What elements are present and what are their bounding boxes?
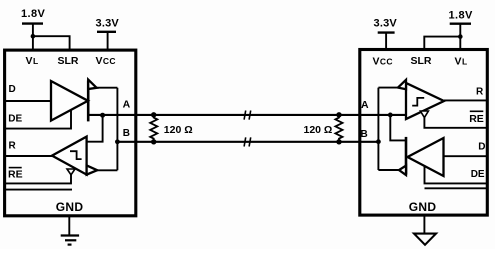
driver U2 output bar xyxy=(405,137,408,175)
wire break marks on line B xyxy=(244,137,251,146)
resistor RT1 120 ohm (left termination) xyxy=(150,112,157,144)
wire 1.8V to VL pin (U2) xyxy=(459,24,461,49)
svg-text:SLR: SLR xyxy=(58,55,79,67)
wire pin DE (U1) xyxy=(6,110,71,128)
wire 1.8V to SLR pin (U1) xyxy=(33,36,70,49)
svg-text:A: A xyxy=(361,99,369,111)
wire bus line A xyxy=(88,114,407,116)
wire 3.3V to VCC pin (U1) xyxy=(107,32,109,50)
wire break marks on line A xyxy=(244,111,251,120)
svg-text:1.8V: 1.8V xyxy=(21,8,45,20)
wire receiver U2 inverting input to node B xyxy=(378,87,398,89)
wire pin D (U2) xyxy=(444,155,488,157)
receiver U2 enable flag xyxy=(420,111,428,118)
wire 1.8V to VL pin (U1) xyxy=(32,24,34,50)
svg-text:120 Ω: 120 Ω xyxy=(164,124,193,136)
ground triangle symbol (U2) xyxy=(414,234,436,245)
transceiver U1 box xyxy=(5,50,136,216)
svg-text:GND: GND xyxy=(56,200,84,214)
supply rail bar 3.3V (right) xyxy=(378,31,395,33)
wire GND pin (U2) xyxy=(423,216,425,234)
junction 1.8V node (left) xyxy=(31,34,36,39)
wire node B vertical (U2) xyxy=(377,88,379,170)
driver U1 triangle xyxy=(51,81,88,121)
svg-text:3.3V: 3.3V xyxy=(374,18,398,30)
supply rail bar 3.3V (left) xyxy=(97,31,116,33)
driver U1 inverting output flag xyxy=(88,80,96,89)
svg-text:1.8V: 1.8V xyxy=(449,10,473,22)
svg-text:VCC: VCC xyxy=(96,55,116,67)
receiver U1 inverting input flag xyxy=(87,165,98,174)
svg-text:DE: DE xyxy=(8,114,22,125)
wire node A to driver output bar (U2) xyxy=(390,115,406,140)
junction node B (U2) xyxy=(376,139,381,144)
supply rail bar 1.8V (right) xyxy=(450,23,471,25)
svg-text:VL: VL xyxy=(26,55,39,67)
resistor RT2 120 ohm (right termination) xyxy=(335,112,342,144)
driver U2 triangle xyxy=(408,138,444,176)
receiver U1 hysteresis symbol xyxy=(70,151,82,159)
svg-text:VL: VL xyxy=(455,56,468,68)
svg-text:SLR: SLR xyxy=(411,55,432,67)
svg-text:B: B xyxy=(123,128,130,139)
receiver U2 triangle xyxy=(406,83,444,119)
junction node A (U1) xyxy=(100,113,105,118)
wire receiver U1 inverting input to node B xyxy=(97,169,117,171)
wire 1.8V to SLR pin (U2) xyxy=(424,37,460,49)
svg-text:D: D xyxy=(478,142,485,153)
svg-text:VCC: VCC xyxy=(373,56,393,68)
transceiver U2 box xyxy=(360,50,488,216)
junction node A (U2) xyxy=(388,113,393,118)
supply rail bar 1.8V (left) xyxy=(22,22,43,24)
wire pin RE (U2) xyxy=(424,118,487,128)
svg-text:GND: GND xyxy=(409,200,437,214)
wire driver U2 inverting output to node B xyxy=(378,169,399,171)
svg-text:RE: RE xyxy=(8,168,23,180)
receiver U1 enable flag xyxy=(67,169,75,175)
receiver U2 hysteresis symbol xyxy=(412,98,424,106)
svg-text:A: A xyxy=(123,98,131,110)
stub line below RE (U1) xyxy=(6,189,72,191)
wire node A to receiver input (U1) xyxy=(87,115,103,142)
ground earth symbol (U1) xyxy=(61,236,79,245)
driver U1 output bar xyxy=(87,81,90,122)
wire GND pin (U1) xyxy=(68,217,70,236)
wire driver U1 inverting output to node B xyxy=(97,87,118,89)
wire bus line B xyxy=(117,141,378,143)
wire pin R (U1) xyxy=(6,155,52,157)
svg-text:B: B xyxy=(361,129,368,140)
svg-text:120 Ω: 120 Ω xyxy=(304,124,333,136)
receiver U2 inverting input flag xyxy=(398,80,406,89)
svg-text:D: D xyxy=(9,84,16,95)
receiver U1 triangle xyxy=(52,137,87,175)
wire pin D (U1) xyxy=(6,100,51,102)
driver U2 inverting output flag xyxy=(399,166,406,175)
svg-text:3.3V: 3.3V xyxy=(96,17,120,29)
junction 1.8V node (right) xyxy=(458,34,463,39)
pin label RE-bar (U1) xyxy=(8,168,23,181)
svg-text:R: R xyxy=(476,86,484,97)
wire node B vertical (U1) xyxy=(116,88,118,171)
wire 3.3V to VCC pin (U2) xyxy=(385,33,387,49)
svg-text:DE: DE xyxy=(471,169,485,180)
wire pin R (U2) xyxy=(444,99,487,101)
svg-text:R: R xyxy=(9,141,17,152)
stub line below DE (U2) xyxy=(425,187,488,189)
junction node B (U1) xyxy=(115,139,120,144)
pin label RE-bar (U2) xyxy=(469,111,484,125)
wire pin RE (U1) xyxy=(6,175,71,184)
wire pin DE (U2) xyxy=(425,166,488,183)
svg-text:RE: RE xyxy=(469,113,484,125)
